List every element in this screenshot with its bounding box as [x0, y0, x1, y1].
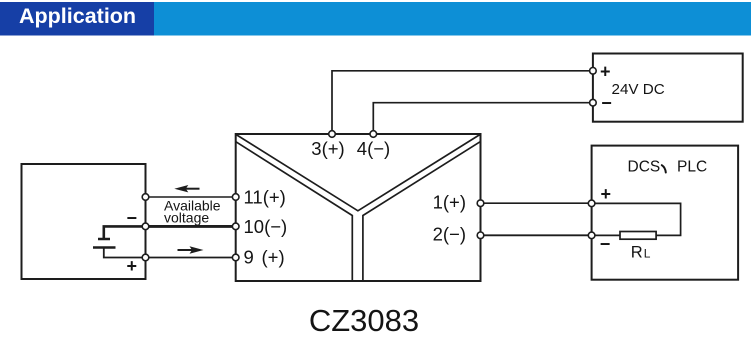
svg-text:+: + — [601, 184, 612, 204]
terminal 9 — [232, 254, 239, 261]
svg-text:+: + — [126, 256, 137, 276]
svg-text:4(−): 4(−) — [357, 138, 390, 159]
svg-text:11(+): 11(+) — [244, 187, 286, 208]
svg-text:10(−): 10(−) — [244, 216, 288, 237]
terminal 2 — [477, 232, 484, 239]
header banner light blue — [0, 2, 751, 36]
svg-text:−: − — [126, 208, 137, 228]
terminal 10 — [232, 223, 239, 230]
DCS / PLC box — [592, 146, 739, 280]
svg-text:9(+): 9(+) — [244, 247, 285, 268]
battery B1 — [93, 239, 116, 248]
svg-text:−: − — [600, 234, 611, 254]
wire terminal 2 to DCS - — [481, 234, 592, 236]
svg-text:−: − — [601, 93, 612, 113]
terminal circles — [142, 68, 596, 261]
svg-text:L: L — [644, 247, 651, 261]
svg-text:1(+): 1(+) — [433, 192, 466, 213]
svg-text:Application: Application — [19, 4, 136, 28]
arrow pointing left (current direction on wire 11) — [174, 185, 199, 192]
svg-text:DCS: DCS — [628, 159, 661, 176]
left box node middle — [142, 223, 149, 230]
24V DC supply box — [593, 54, 743, 122]
24V + terminal — [590, 68, 597, 75]
svg-text:2(−): 2(−) — [433, 224, 466, 245]
inner V of barrier — [236, 135, 480, 211]
right barrier line + right vertical — [363, 142, 480, 281]
ideographic comma — [662, 165, 666, 172]
isolator block body — [236, 134, 481, 281]
left source box — [22, 164, 146, 279]
battery negative lead inside left box (thick) — [104, 226, 146, 239]
DCS - terminal — [588, 232, 595, 239]
svg-text:3(+): 3(+) — [311, 138, 344, 159]
wire terminal 3 to 24V + — [332, 71, 593, 134]
DCS + terminal — [588, 200, 595, 207]
terminal 3 — [329, 131, 336, 138]
isolation barrier Y (double lines) — [236, 135, 480, 282]
wire left box to terminal 11 — [146, 196, 236, 198]
terminal 11 — [232, 194, 239, 201]
wire terminal 1 to DCS + — [481, 202, 592, 204]
svg-text:CZ3083: CZ3083 — [309, 303, 419, 338]
DCS internal loop wire — [592, 203, 681, 235]
left box node bottom — [142, 254, 149, 261]
svg-text:voltage: voltage — [164, 210, 209, 226]
battery positive lead — [104, 248, 146, 258]
svg-text:24V DC: 24V DC — [612, 81, 665, 98]
header banner dark blue — [0, 2, 154, 36]
wire from - terminal to resistor — [592, 234, 620, 236]
svg-text:R: R — [631, 244, 643, 262]
wire left box to terminal 9 — [146, 257, 236, 259]
wire terminal 4 to 24V - — [373, 103, 593, 134]
svg-text:+: + — [600, 61, 611, 81]
left box node top — [142, 194, 149, 201]
wire left box to terminal 10 (thick) — [146, 225, 236, 228]
left barrier line + left vertical — [236, 142, 352, 281]
resistor RL — [620, 232, 656, 240]
terminal 1 — [477, 200, 484, 207]
24V - terminal — [590, 99, 597, 106]
arrow pointing right (current direction on wire 9) — [178, 246, 204, 253]
svg-text:PLC: PLC — [677, 159, 707, 176]
terminal 4 — [370, 131, 377, 138]
